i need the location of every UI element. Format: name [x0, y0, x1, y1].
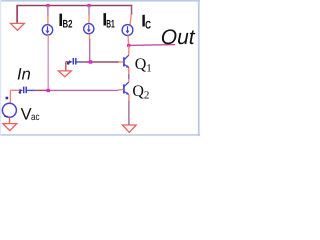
node dot out junction — [127, 44, 130, 47]
ground GND1 top-left — [11, 23, 25, 30]
border frame left — [0, 0, 1, 136]
wire Q2 emitter down — [128, 95, 130, 102]
wire stub rail to IB2 — [47, 6, 49, 17]
wire out — [129, 44, 175, 47]
wire top rail — [16, 5, 132, 7]
wire V_ac to ground — [9, 117, 11, 123]
minus tick of V_ac — [4, 115, 7, 117]
svg-text:In: In — [17, 66, 31, 84]
capacitor C1 (input) — [13, 89, 21, 91]
node dot on rail at IB1 — [88, 4, 91, 7]
current source IB2 — [42, 25, 52, 35]
border frame right — [198, 0, 200, 136]
source V_ac — [2, 103, 16, 117]
transistor Q2 — [123, 84, 125, 93]
wire out node down to Q1 collector — [128, 46, 130, 56]
ground GND3 bottom-left — [3, 124, 17, 131]
wire stub rail to IB1 — [88, 6, 90, 16]
svg-text:ac: ac — [31, 112, 40, 123]
wire Q1 emitter to Q2 collector — [128, 68, 130, 74]
current source IC — [122, 25, 133, 36]
capacitor C2 (base) — [66, 61, 71, 63]
wire Q1 base — [76, 61, 83, 63]
svg-text:1: 1 — [146, 62, 152, 74]
ground GND4 bottom-right — [122, 125, 136, 132]
wire In (Q2 base) — [27, 89, 36, 91]
wire rail right corner drop to IC — [131, 5, 133, 15]
ground GND2 middle — [58, 71, 71, 77]
node dot In wire / IB2 junction — [47, 89, 50, 92]
svg-text:Q: Q — [132, 83, 144, 100]
svg-text:V: V — [21, 105, 32, 123]
wire IB1 down to base wire — [89, 34, 91, 40]
svg-text:B1: B1 — [106, 18, 115, 30]
current source IB1 — [84, 24, 94, 34]
wire IB2 down to In wire — [47, 35, 49, 41]
node dot on rail at IB2 — [46, 4, 49, 7]
transistor Q1 — [123, 57, 125, 66]
wire cap to ground drop — [65, 62, 67, 71]
node plus dot of V_ac — [6, 97, 9, 100]
border frame bottom — [0, 134, 200, 136]
svg-text:B2: B2 — [63, 19, 73, 31]
wire left drop to ground — [16, 6, 18, 23]
svg-text:Q: Q — [135, 56, 147, 73]
node dot base wire / IB1 junction — [89, 60, 92, 63]
svg-text:C: C — [145, 20, 151, 32]
wire IC down to out node — [127, 35, 130, 45]
border frame top — [0, 0, 200, 2]
wire V_ac to In corner — [9, 90, 11, 103]
svg-text:Out: Out — [161, 26, 196, 49]
svg-text:2: 2 — [144, 89, 150, 101]
